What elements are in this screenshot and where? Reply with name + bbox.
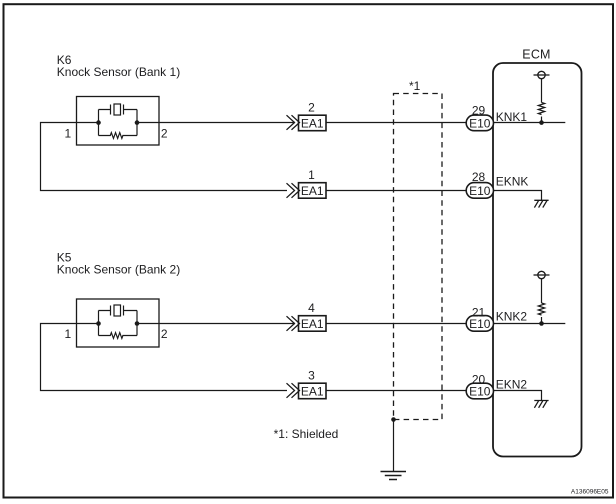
svg-text:Knock Sensor (Bank 1): Knock Sensor (Bank 1)	[57, 65, 180, 79]
knock sensor K5 designator label	[57, 251, 180, 277]
chassis ground (EKNK)	[534, 200, 548, 207]
node KNK2 junction	[539, 321, 544, 326]
connector EA1 pin 2	[287, 115, 327, 131]
wire shield to ground	[393, 420, 395, 472]
svg-text:KNK1: KNK1	[496, 110, 528, 124]
svg-text:28: 28	[472, 170, 486, 184]
node K6 pin2 junction	[135, 120, 140, 125]
connector E10 pin 21	[466, 316, 493, 332]
chassis ground (EKN2)	[534, 401, 548, 408]
wire resistor to KNK2 node	[541, 317, 543, 324]
svg-text:EA1: EA1	[301, 116, 324, 130]
svg-text:Knock Sensor (Bank 2): Knock Sensor (Bank 2)	[57, 262, 180, 276]
svg-text:3: 3	[308, 369, 315, 383]
svg-text:2: 2	[161, 127, 168, 141]
svg-text:1: 1	[64, 327, 71, 341]
svg-text:EA1: EA1	[301, 317, 324, 331]
svg-text:1: 1	[308, 168, 315, 182]
node KNK1 junction	[539, 120, 544, 125]
wire E10 pin20 to chassis ground	[494, 391, 542, 401]
node K5 pin2 junction	[135, 321, 140, 326]
svg-text:20: 20	[472, 373, 486, 387]
svg-text:E10: E10	[469, 116, 491, 130]
svg-text:EKN2: EKN2	[496, 378, 528, 392]
connector E10 pin 28	[466, 183, 493, 199]
connector E10 pin 20	[466, 383, 493, 399]
svg-text:1: 1	[64, 127, 71, 141]
shield *1 dashed enclosure	[394, 94, 443, 420]
wire E10 pin28 to chassis ground	[494, 191, 542, 201]
svg-text:EA1: EA1	[301, 184, 324, 198]
svg-text:*1: *1	[409, 79, 421, 93]
resistor (KNK2 pull-up)	[538, 303, 544, 315]
knock sensor K6 designator label	[57, 53, 180, 79]
wire EA1 pin1 to E10 pin28	[326, 190, 467, 192]
piezoelectric element of K5	[99, 305, 138, 316]
wire supply to resistor	[541, 79, 543, 103]
wire EA1 pin4 to E10 pin21	[326, 323, 467, 325]
connector EA1 pin 4	[287, 316, 327, 332]
wire K6 pin1 down-left to EA1 pin1	[41, 123, 288, 191]
svg-text:E10: E10	[469, 184, 491, 198]
svg-text:21: 21	[472, 305, 486, 319]
wire K5 internal node frame	[77, 311, 160, 336]
svg-text:KNK2: KNK2	[496, 309, 528, 323]
svg-text:4: 4	[308, 301, 315, 315]
knock sensor K5	[77, 299, 160, 347]
wire EA1 pin3 to E10 pin20	[326, 390, 467, 392]
ECM box	[493, 63, 582, 457]
power symbol (KNK2 pull-up supply)	[534, 271, 550, 278]
node shield-to-ground junction	[391, 417, 396, 422]
node K5 pin1 junction	[96, 321, 101, 326]
resistor inside K5	[99, 333, 138, 339]
wire E10 pin29 into ECM	[494, 122, 566, 124]
connector E10 pin 29	[466, 115, 493, 131]
connector EA1 pin 3	[287, 383, 327, 399]
piezoelectric element of K6	[99, 104, 138, 115]
power symbol (KNK1 pull-up supply)	[534, 71, 550, 78]
wire K6 pin2 to EA1 pin2	[159, 122, 295, 124]
svg-text:A136096E05: A136096E05	[571, 489, 609, 496]
svg-text:2: 2	[161, 327, 168, 341]
resistor inside K6	[99, 133, 138, 139]
connector EA1 pin 1	[287, 183, 327, 199]
svg-text:EA1: EA1	[301, 384, 324, 398]
wire supply to resistor KNK2	[541, 279, 543, 303]
knock sensor K6	[77, 97, 160, 146]
svg-text:29: 29	[472, 103, 486, 117]
wire resistor to KNK1 node	[541, 117, 543, 123]
wire EA1 pin2 to E10 pin29	[326, 122, 467, 124]
svg-text:2: 2	[308, 101, 315, 115]
svg-text:*1: Shielded: *1: Shielded	[274, 427, 339, 441]
resistor (KNK1 pull-up)	[538, 103, 544, 115]
wire K5 pin1 down-left to EA1 pin3	[41, 324, 288, 391]
ground (shield earth ground)	[381, 472, 407, 480]
svg-text:ECM: ECM	[522, 48, 550, 62]
wire E10 pin21 into ECM	[494, 323, 566, 325]
node K6 pin1 junction	[96, 120, 101, 125]
svg-text:EKNK: EKNK	[496, 174, 529, 188]
wire K6 internal node frame	[77, 110, 160, 136]
wire K5 pin2 to EA1 pin4	[159, 323, 295, 325]
